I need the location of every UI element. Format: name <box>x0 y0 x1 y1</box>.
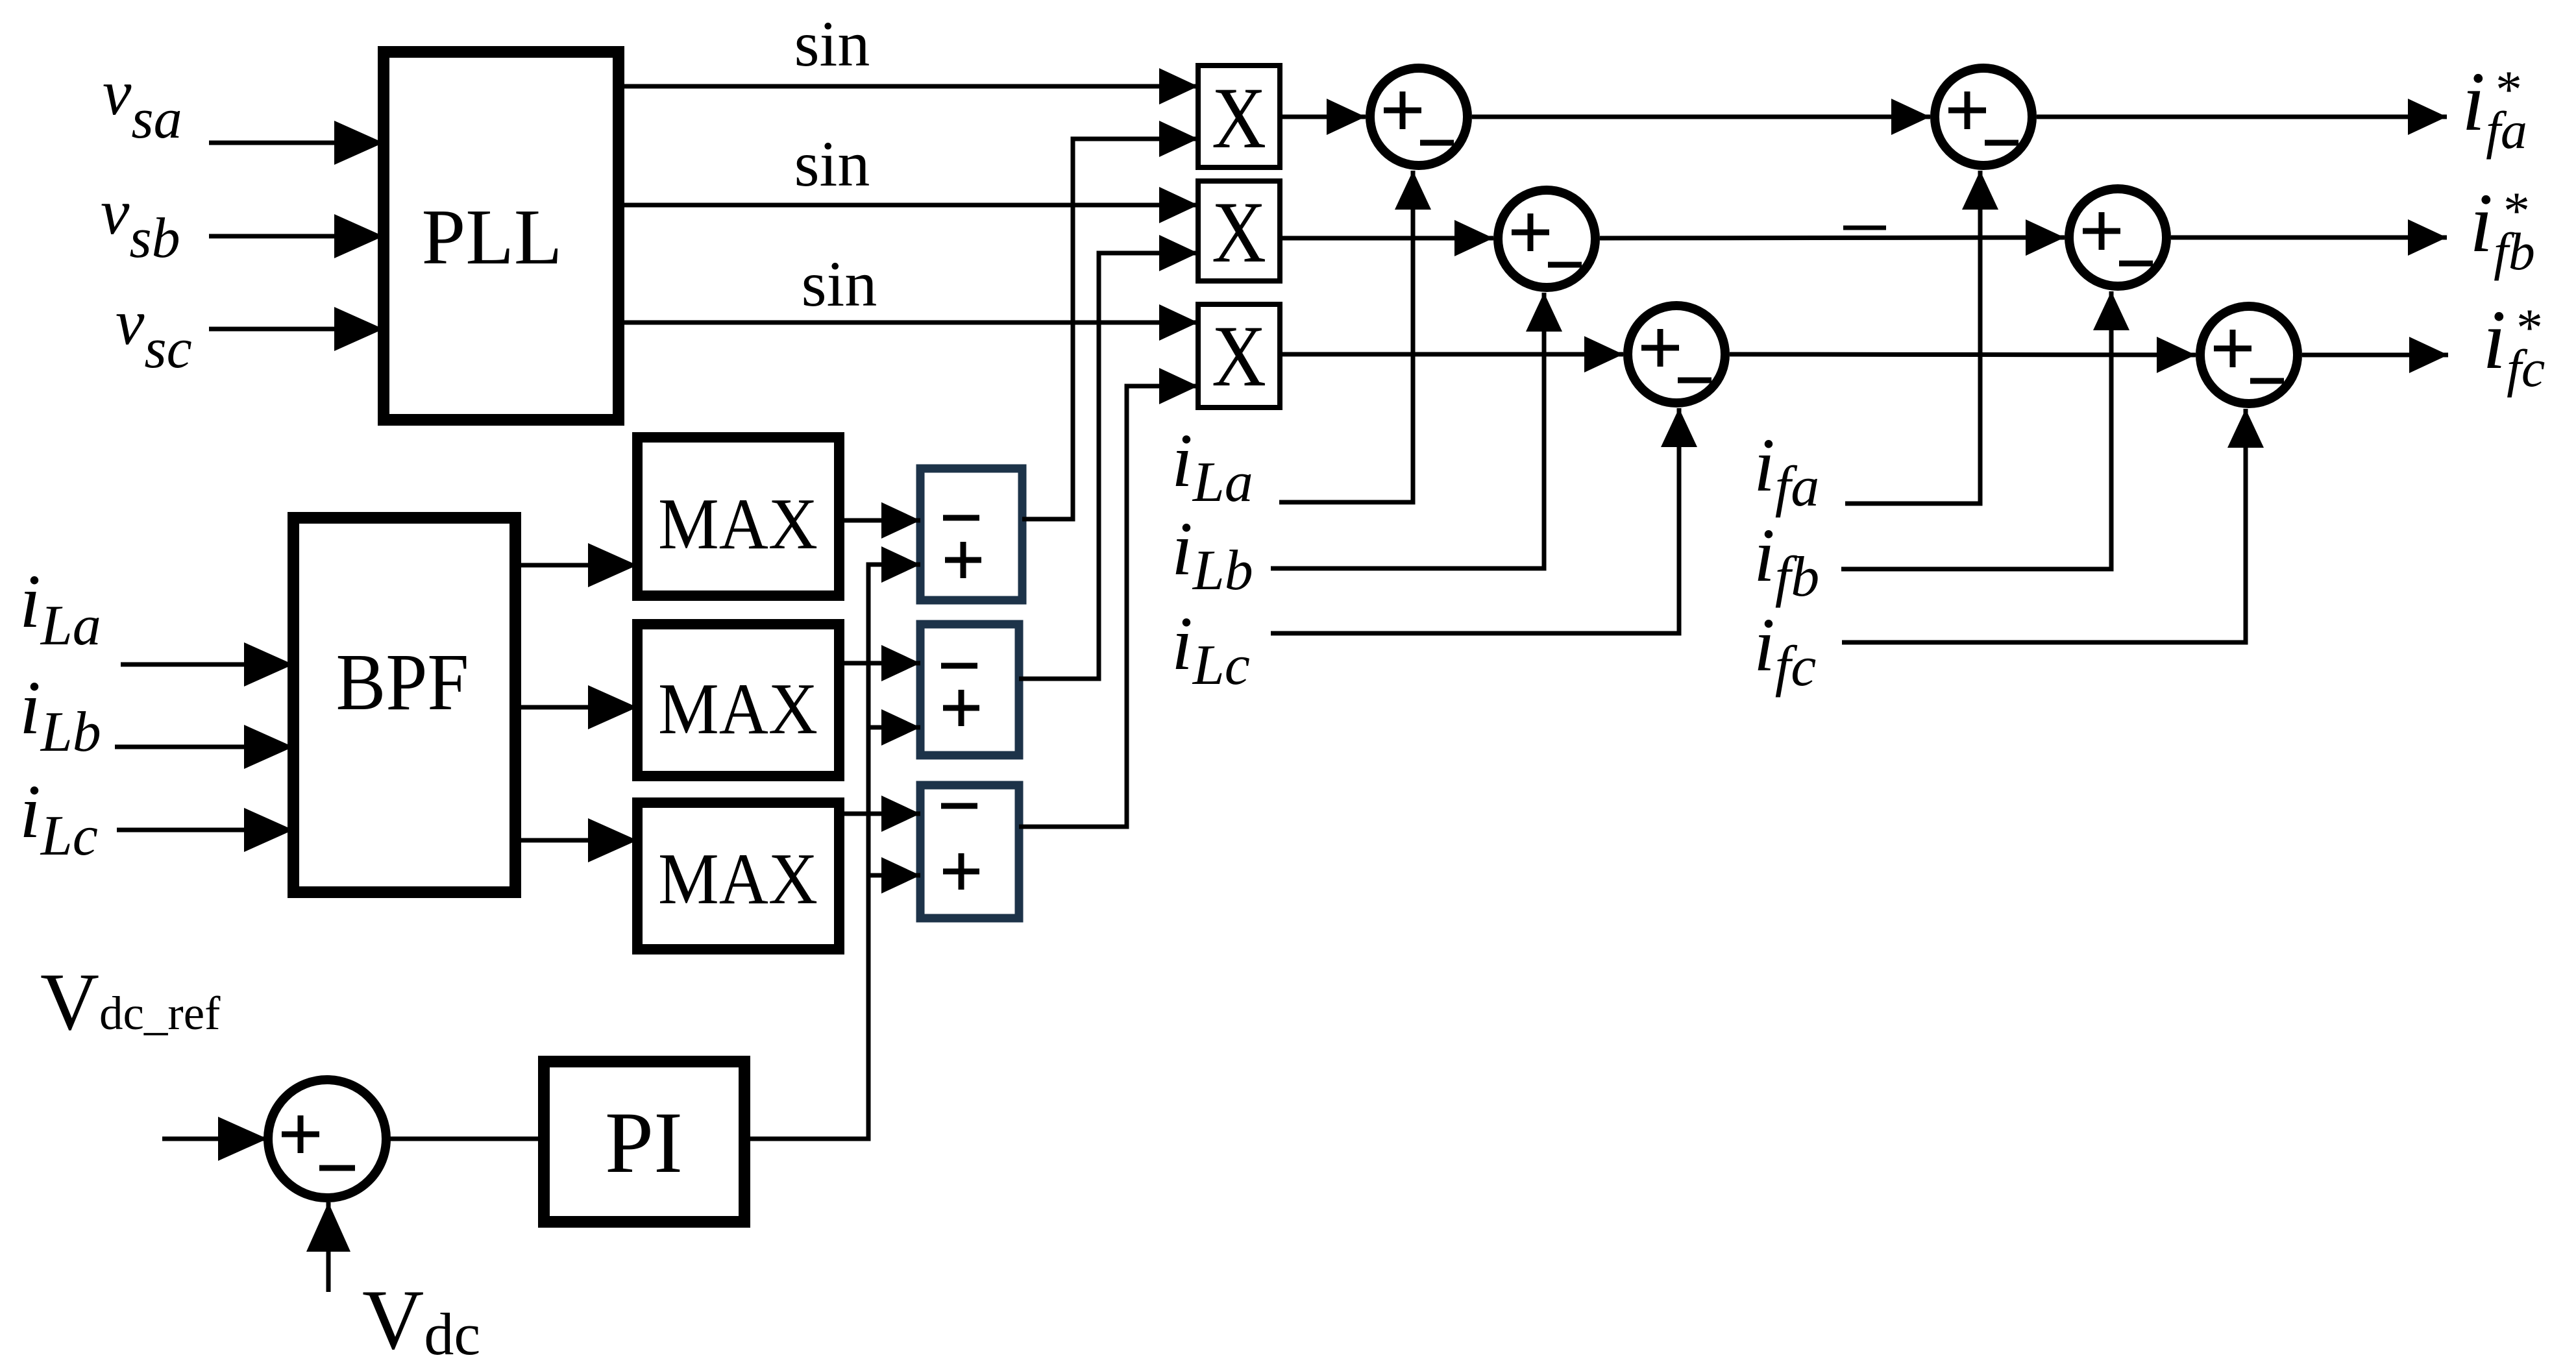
svg-text:MAX: MAX <box>658 839 818 919</box>
svg-text:sin: sin <box>802 248 877 320</box>
svg-text:X: X <box>1212 184 1266 281</box>
svg-text:i*fc: i*fc <box>2483 293 2545 398</box>
svg-text:PLL: PLL <box>422 193 563 281</box>
svg-text:BPF: BPF <box>336 638 469 727</box>
svg-text:MAX: MAX <box>658 484 818 565</box>
svg-text:MAX: MAX <box>658 669 818 749</box>
svg-text:i*fa: i*fa <box>2462 55 2527 160</box>
svg-text:i*fb: i*fb <box>2470 176 2535 281</box>
svg-text:X: X <box>1212 308 1266 405</box>
svg-text:X: X <box>1212 70 1266 167</box>
svg-text:sin: sin <box>794 8 870 80</box>
svg-text:PI: PI <box>605 1095 683 1191</box>
svg-text:sin: sin <box>794 128 870 200</box>
